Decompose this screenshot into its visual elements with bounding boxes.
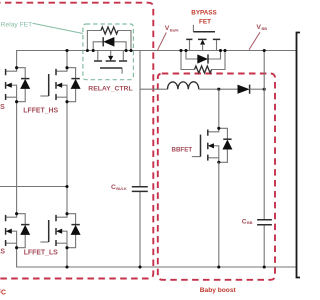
svg-text:BB: BB	[247, 221, 253, 225]
svg-text:BB: BB	[262, 27, 268, 31]
svg-text:HFFET_HS: HFFET_HS	[0, 104, 5, 111]
wire BBFET drain	[218, 89, 220, 128]
transistor LFFET_HS	[40, 68, 75, 102]
load block edge	[297, 33, 301, 278]
resistor relay parallel R	[87, 31, 131, 51]
svg-text:Relay FET: Relay FET	[1, 22, 33, 29]
svg-text:Baby boost: Baby boost	[200, 287, 237, 294]
svg-text:Bulk: Bulk	[170, 27, 179, 32]
transistor BBFET	[192, 128, 228, 162]
svg-text:Totem-pole PFC: Totem-pole PFC	[0, 290, 6, 297]
resistor bypass parallel R	[181, 51, 225, 70]
Relay FET callout line	[33, 23, 83, 33]
PFC stage dashed box	[0, 3, 153, 279]
transistor bypass FET (horizontal, arrow up)	[190, 25, 217, 51]
capacitor CBB	[257, 220, 272, 225]
diode relay parallel D (points left)	[93, 42, 126, 51]
svg-text:FET: FET	[199, 18, 211, 25]
node CBULK bottom	[138, 265, 141, 268]
node BBFET source rail	[217, 265, 220, 268]
node CBB bottom	[263, 265, 266, 268]
wire right leg mid	[66, 102, 68, 214]
inductor L baby boost	[168, 82, 199, 89]
capacitor CBULK	[132, 187, 148, 192]
Relay FET dashed box	[83, 24, 133, 80]
svg-text:BULK: BULK	[116, 187, 127, 191]
node boost switch	[217, 88, 220, 91]
Baby boost dashed box	[158, 74, 275, 280]
node rail FET2 drain	[65, 49, 68, 52]
svg-text:C: C	[242, 218, 247, 225]
wire baby boost feed	[140, 88, 168, 90]
wire left leg mid	[16, 102, 18, 214]
svg-text:HFFET_LS: HFFET_LS	[0, 249, 5, 256]
diode baby boost (points right)	[238, 85, 250, 94]
wire AC input	[0, 186, 67, 188]
node AC junction	[65, 185, 68, 188]
wire bulk tap	[139, 51, 141, 268]
node relay rail dots	[86, 49, 89, 52]
wire BBFET source	[218, 162, 220, 267]
diode bypass parallel D (points right)	[186, 51, 221, 60]
node bypass rail dots	[179, 49, 182, 52]
wire LFFET_HS drain	[66, 51, 68, 68]
node diode out	[263, 88, 266, 91]
transistor HFFET_LS (partially clipped)	[0, 214, 25, 248]
svg-text:RELAY_CTRL: RELAY_CTRL	[88, 86, 132, 93]
svg-text:BBFET: BBFET	[172, 147, 193, 154]
transistor HFFET_HS (partially clipped)	[0, 68, 25, 102]
transistor relay FET (horizontal, arrow down)	[98, 51, 124, 74]
node VBB rail	[263, 49, 266, 52]
svg-text:LFFET_HS: LFFET_HS	[23, 108, 58, 115]
wire bottom rail	[17, 248, 297, 267]
svg-text:BYPASS: BYPASS	[191, 9, 216, 16]
wire right leg lower	[66, 248, 68, 267]
leader VBB	[249, 32, 260, 50]
svg-text:LFFET_LS: LFFET_LS	[24, 250, 58, 257]
wire diode to VBB node	[250, 88, 265, 90]
leader Vbulk	[158, 33, 167, 51]
node rail bottom joint	[65, 265, 68, 268]
wire VBB branch	[263, 51, 265, 268]
wire inductor to diode	[199, 88, 238, 90]
wire top rail Vbulk	[17, 51, 297, 68]
transistor LFFET_LS	[40, 214, 75, 248]
